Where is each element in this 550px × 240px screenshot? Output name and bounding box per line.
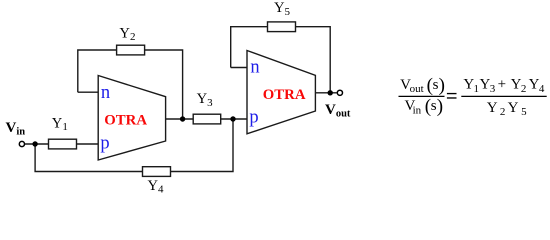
svg-text:p: p bbox=[100, 134, 109, 154]
svg-text:n: n bbox=[101, 83, 110, 103]
svg-text:n: n bbox=[250, 57, 259, 77]
svg-text:p: p bbox=[249, 107, 258, 127]
svg-text:OTRA: OTRA bbox=[263, 87, 306, 103]
svg-text:Vin(s): Vin(s) bbox=[405, 96, 444, 117]
svg-text:OTRA: OTRA bbox=[104, 113, 147, 129]
